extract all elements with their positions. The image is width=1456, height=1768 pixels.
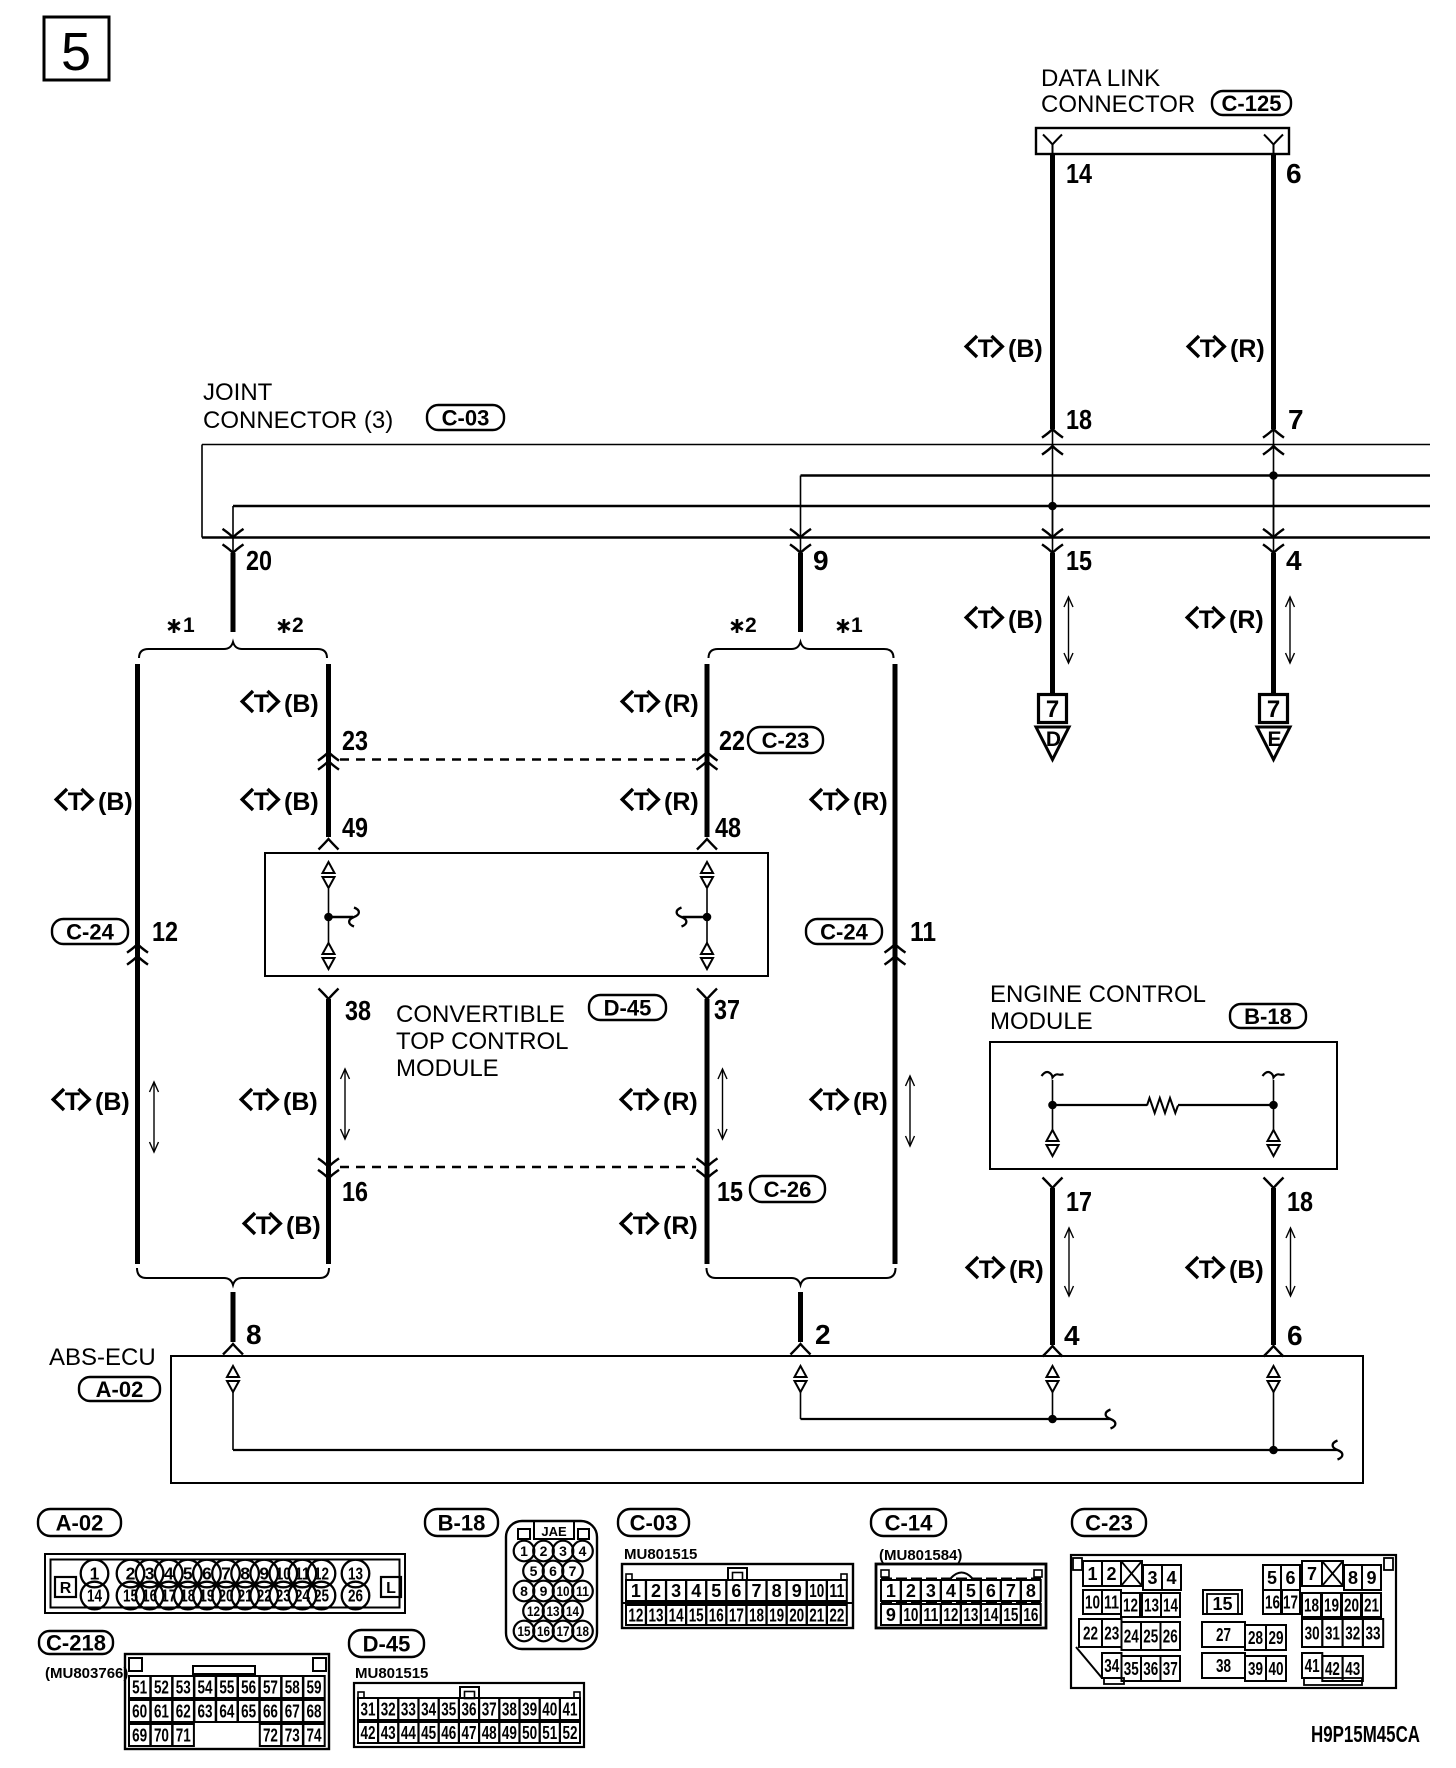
wire label T B <box>244 1212 321 1240</box>
split label *2 left <box>278 614 303 637</box>
svg-text:(R): (R) <box>664 788 699 816</box>
svg-text:34: 34 <box>421 1700 436 1720</box>
connector crossing pin 7 <box>1263 429 1284 455</box>
terminal pin 6 of C-125 <box>1264 135 1283 155</box>
connector crossing pin 4 <box>1263 529 1284 553</box>
connector pinout B-18 JAE <box>506 1521 597 1649</box>
wire pin 6 to joint connector <box>1271 154 1276 429</box>
svg-text:CONVERTIBLE: CONVERTIBLE <box>396 1001 565 1028</box>
module internal wire right <box>683 889 708 943</box>
svg-text:22: 22 <box>1083 1624 1098 1644</box>
svg-text:1: 1 <box>520 1543 528 1559</box>
svg-text:(R): (R) <box>663 1212 698 1240</box>
svg-text:14: 14 <box>1066 158 1092 189</box>
ABS internal break lower <box>1333 1441 1343 1460</box>
terminal flare pin 8 <box>223 1344 243 1355</box>
connector pinout C-218 <box>125 1654 329 1749</box>
wire label T B <box>242 690 319 718</box>
merge brace right <box>707 1268 896 1285</box>
connector crossing C-23 pin 23 <box>318 752 339 770</box>
junction dot pin18 bus <box>1048 502 1057 511</box>
pin number 12 <box>152 916 178 947</box>
svg-text:12: 12 <box>314 1564 329 1584</box>
terminal flare pin 37 <box>697 989 717 1000</box>
svg-text:49: 49 <box>342 812 368 843</box>
wire label T B inner <box>242 788 319 816</box>
svg-text:4: 4 <box>1166 1568 1176 1588</box>
ABS internal wire pin 8 <box>233 1392 1337 1450</box>
pin number 6 <box>1286 158 1302 189</box>
pin number 15 <box>1066 545 1092 576</box>
terminal flare pin 2 <box>791 1344 811 1355</box>
svg-text:36: 36 <box>462 1700 477 1720</box>
svg-text:13: 13 <box>1144 1596 1159 1616</box>
svg-text:35: 35 <box>441 1700 456 1720</box>
svg-text:18: 18 <box>749 1606 764 1626</box>
svg-text:T: T <box>253 1088 268 1116</box>
svg-text:25: 25 <box>314 1586 329 1606</box>
wire pin4 inside box <box>1273 476 1275 538</box>
ABS internal terminal pin 6 <box>1268 1366 1280 1392</box>
svg-text:C-23: C-23 <box>1085 1511 1133 1536</box>
module name <box>396 1001 568 1082</box>
svg-text:A-02: A-02 <box>96 1377 144 1402</box>
svg-text:41: 41 <box>563 1700 578 1720</box>
page number 5 box <box>44 17 109 82</box>
svg-text:51: 51 <box>542 1723 557 1743</box>
wire label T R <box>967 1256 1044 1284</box>
wire pin 8 <box>231 1292 236 1342</box>
svg-text:7: 7 <box>1006 1581 1016 1601</box>
svg-text:29: 29 <box>1269 1628 1284 1648</box>
svg-text:6: 6 <box>1286 158 1302 189</box>
svg-text:17: 17 <box>557 1623 570 1639</box>
svg-text:T: T <box>978 335 993 363</box>
svg-text:6: 6 <box>202 1564 212 1584</box>
svg-text:T: T <box>633 1088 648 1116</box>
svg-text:13: 13 <box>547 1603 560 1619</box>
connector pinout C-14 <box>876 1564 1046 1628</box>
connector crossing C-24 right <box>885 944 906 965</box>
split label *2 right <box>731 614 756 637</box>
svg-text:1: 1 <box>886 1581 896 1601</box>
svg-text:7: 7 <box>221 1564 231 1584</box>
svg-text:9: 9 <box>792 1581 802 1601</box>
bus wire CAN-L inside joint connector <box>233 506 1430 538</box>
svg-text:45: 45 <box>421 1723 436 1743</box>
svg-text:6: 6 <box>1287 1320 1303 1351</box>
connector crossing C-26 pin 15 <box>697 1158 718 1178</box>
svg-text:(B): (B) <box>1229 1256 1264 1284</box>
svg-text:7: 7 <box>751 1581 761 1601</box>
ABS internal wire pin 4 <box>1052 1392 1054 1419</box>
connector crossing pin 18 <box>1042 429 1063 455</box>
svg-text:6: 6 <box>986 1581 996 1601</box>
wire ECM pin 18 to ABS <box>1271 1188 1276 1345</box>
svg-text:8: 8 <box>520 1583 528 1599</box>
svg-text:1: 1 <box>631 1581 641 1601</box>
svg-text:15: 15 <box>1003 1605 1018 1625</box>
svg-text:C-14: C-14 <box>885 1511 933 1536</box>
svg-text:32: 32 <box>381 1700 396 1720</box>
connector label C-23 <box>748 727 823 753</box>
svg-text:23: 23 <box>342 725 368 756</box>
connector pinout D-45 <box>354 1683 584 1747</box>
twisted pair arrow <box>1064 597 1073 663</box>
svg-text:17: 17 <box>1066 1186 1092 1217</box>
svg-text:37: 37 <box>1163 1659 1178 1679</box>
svg-text:17: 17 <box>729 1606 744 1626</box>
module internal terminal pin 48 <box>701 862 713 888</box>
wire pin15 inside box <box>1052 506 1054 538</box>
svg-text:38: 38 <box>502 1700 517 1720</box>
svg-text:46: 46 <box>441 1723 456 1743</box>
svg-text:48: 48 <box>482 1723 497 1743</box>
wire pin 14 to joint connector <box>1050 154 1055 429</box>
svg-text:43: 43 <box>381 1723 396 1743</box>
svg-text:C-26: C-26 <box>764 1177 812 1202</box>
wire label T R <box>621 1212 698 1240</box>
svg-text:2: 2 <box>651 1581 661 1601</box>
part number MU801515 C-03 <box>624 1546 697 1563</box>
svg-text:58: 58 <box>285 1678 300 1698</box>
wire pin15 to connector D <box>1050 553 1055 695</box>
svg-text:37: 37 <box>714 994 740 1025</box>
svg-text:19: 19 <box>769 1606 784 1626</box>
svg-text:69: 69 <box>132 1726 147 1746</box>
svg-text:27: 27 <box>1216 1625 1231 1645</box>
svg-text:12: 12 <box>152 916 178 947</box>
svg-text:31: 31 <box>361 1700 376 1720</box>
svg-text:(B): (B) <box>284 690 319 718</box>
branch brace right <box>709 642 894 658</box>
pin number 2 <box>815 1319 831 1350</box>
svg-text:5: 5 <box>1267 1568 1277 1588</box>
pin number 14 <box>1066 158 1092 189</box>
svg-text:31: 31 <box>1325 1624 1340 1644</box>
connector label C-125 <box>1212 91 1291 116</box>
ECM internal break left <box>1042 1072 1064 1078</box>
connector crossing pin 15 <box>1042 529 1063 553</box>
pin number 23 <box>342 725 368 756</box>
data link connector C-125 box <box>1036 128 1289 154</box>
svg-text:7: 7 <box>1288 404 1304 435</box>
svg-text:3: 3 <box>559 1543 567 1559</box>
svg-text:11: 11 <box>829 1581 844 1601</box>
svg-text:A-02: A-02 <box>56 1511 104 1536</box>
svg-text:ABS-ECU: ABS-ECU <box>49 1344 156 1371</box>
off-page connector 7-E <box>1257 695 1290 760</box>
svg-text:14: 14 <box>983 1605 998 1625</box>
terminal pin 14 of C-125 <box>1043 135 1062 155</box>
twisted pair arrow <box>341 1069 350 1139</box>
svg-text:24: 24 <box>1124 1627 1139 1647</box>
svg-text:18: 18 <box>1304 1596 1319 1616</box>
svg-text:34: 34 <box>1104 1656 1119 1676</box>
svg-text:(R): (R) <box>1009 1256 1044 1284</box>
pin number 8 <box>246 1319 262 1350</box>
svg-text:D-45: D-45 <box>604 996 652 1021</box>
twisted pair arrow <box>906 1076 915 1146</box>
svg-text:MODULE: MODULE <box>396 1055 499 1082</box>
wire pin 2 <box>798 1292 803 1342</box>
svg-text:9: 9 <box>886 1605 896 1625</box>
svg-text:9: 9 <box>540 1583 548 1599</box>
svg-text:32: 32 <box>1345 1624 1360 1644</box>
svg-text:7: 7 <box>1267 696 1280 723</box>
svg-text:16: 16 <box>709 1606 724 1626</box>
module internal terminal pin 49 <box>323 862 335 888</box>
svg-text:7: 7 <box>1046 696 1059 723</box>
svg-text:41: 41 <box>1305 1656 1320 1676</box>
svg-text:C-24: C-24 <box>66 920 114 945</box>
connector label C-24 left <box>52 919 128 945</box>
svg-text:6: 6 <box>549 1563 557 1579</box>
svg-text:9: 9 <box>813 545 829 576</box>
svg-text:17: 17 <box>1283 1593 1298 1613</box>
svg-text:20: 20 <box>1344 1596 1359 1616</box>
wire label T B inner <box>241 1088 318 1116</box>
svg-text:47: 47 <box>462 1723 477 1743</box>
svg-text:44: 44 <box>401 1723 416 1743</box>
connector C-26 dashed link <box>340 1166 696 1169</box>
connector pinout C-23 <box>1071 1555 1396 1688</box>
twisted pair arrow <box>150 1082 159 1152</box>
svg-text:20: 20 <box>789 1606 804 1626</box>
svg-text:49: 49 <box>502 1723 517 1743</box>
terminal flare ECM pin 18 <box>1264 1178 1284 1189</box>
wire label T R outer <box>811 1088 888 1116</box>
svg-text:36: 36 <box>1143 1659 1158 1679</box>
engine control module label <box>990 981 1206 1035</box>
svg-text:H9P15M45CA: H9P15M45CA <box>1311 1721 1420 1747</box>
svg-text:14: 14 <box>1163 1596 1178 1616</box>
svg-text:21: 21 <box>809 1606 824 1626</box>
svg-text:(MU801584): (MU801584) <box>879 1547 962 1564</box>
svg-text:72: 72 <box>263 1726 278 1746</box>
svg-text:21: 21 <box>1364 1596 1379 1616</box>
svg-text:51: 51 <box>132 1678 147 1698</box>
svg-text:35: 35 <box>1124 1659 1139 1679</box>
svg-text:T: T <box>823 788 838 816</box>
wire label T R <box>622 690 699 718</box>
svg-text:55: 55 <box>219 1678 234 1698</box>
svg-text:65: 65 <box>241 1702 256 1722</box>
terminal flare ABS pin 4 <box>1043 1346 1063 1357</box>
terminal flare ABS pin 6 <box>1264 1346 1284 1357</box>
svg-text:6: 6 <box>1285 1568 1295 1588</box>
joint connector label <box>203 379 393 434</box>
svg-text:DATA LINK: DATA LINK <box>1041 65 1160 92</box>
svg-text:68: 68 <box>307 1702 322 1722</box>
svg-text:5: 5 <box>530 1563 538 1579</box>
svg-text:74: 74 <box>307 1726 322 1746</box>
connector pinout C-03 <box>622 1564 853 1628</box>
svg-text:1: 1 <box>1087 1564 1097 1584</box>
ECM internal wire right <box>1273 1080 1275 1130</box>
wire label T B <box>1187 1256 1264 1284</box>
svg-text:20: 20 <box>246 545 272 576</box>
connector label C-14 bottom <box>871 1509 946 1536</box>
wire label T R <box>1187 606 1264 634</box>
svg-text:T: T <box>823 1088 838 1116</box>
svg-text:2: 2 <box>906 1581 916 1601</box>
svg-text:12: 12 <box>943 1605 958 1625</box>
svg-text:3: 3 <box>145 1564 155 1584</box>
ABS internal break upper <box>1106 1410 1116 1429</box>
svg-text:2: 2 <box>815 1319 831 1350</box>
svg-text:22: 22 <box>719 725 745 756</box>
svg-text:(R): (R) <box>1229 606 1264 634</box>
connector label C-26 <box>750 1176 825 1202</box>
pin number 49 <box>342 812 368 843</box>
svg-text:8: 8 <box>772 1581 782 1601</box>
module internal terminal pin 37 <box>701 943 713 969</box>
twisted pair arrow <box>1065 1228 1074 1296</box>
svg-text:33: 33 <box>1366 1624 1381 1644</box>
terminal flare pin 38 <box>319 989 339 1000</box>
svg-text:13: 13 <box>963 1605 978 1625</box>
ECM terminating resistor <box>1053 1098 1274 1113</box>
terminal flare ECM pin 17 <box>1043 1178 1063 1189</box>
svg-text:14: 14 <box>566 1603 579 1619</box>
svg-text:(B): (B) <box>283 1088 318 1116</box>
connector label C-24 right <box>806 919 882 945</box>
svg-text:CONNECTOR: CONNECTOR <box>1041 91 1195 118</box>
svg-text:18: 18 <box>1066 404 1092 435</box>
svg-text:40: 40 <box>1269 1659 1284 1679</box>
svg-text:5: 5 <box>183 1564 193 1584</box>
pin number 6 <box>1287 1320 1303 1351</box>
svg-text:8: 8 <box>240 1564 250 1584</box>
module internal wire left <box>329 889 354 943</box>
engine control module B-18 box <box>990 1042 1337 1169</box>
wire label T R right <box>1188 335 1265 363</box>
svg-text:D: D <box>1046 728 1061 751</box>
wire label T B <box>966 606 1043 634</box>
svg-text:8: 8 <box>246 1319 262 1350</box>
connector label D-45 <box>589 995 666 1021</box>
ABS internal wire pin 2 <box>801 1392 1111 1419</box>
svg-text:42: 42 <box>1325 1659 1340 1679</box>
svg-text:(R): (R) <box>663 1088 698 1116</box>
svg-text:39: 39 <box>1248 1659 1263 1679</box>
pin number 16 <box>342 1176 368 1207</box>
svg-text:4: 4 <box>691 1581 701 1601</box>
svg-text:5: 5 <box>966 1581 976 1601</box>
svg-text:(R): (R) <box>1230 335 1265 363</box>
wire branch *2 right lower <box>705 999 710 1264</box>
svg-text:38: 38 <box>1216 1656 1231 1676</box>
svg-text:5: 5 <box>61 22 91 82</box>
ABS-ECU label <box>49 1344 156 1371</box>
svg-text:26: 26 <box>1163 1627 1178 1647</box>
svg-text:(B): (B) <box>1008 606 1043 634</box>
twisted pair arrow <box>1286 597 1295 663</box>
svg-text:4: 4 <box>1286 545 1302 576</box>
svg-text:L: L <box>386 1580 396 1597</box>
wire ECM pin 17 to ABS <box>1050 1188 1055 1345</box>
svg-text:1: 1 <box>183 614 195 637</box>
svg-text:(B): (B) <box>1008 335 1043 363</box>
split label *1 right <box>837 614 863 637</box>
svg-text:15: 15 <box>689 1606 704 1626</box>
svg-text:8: 8 <box>1348 1568 1358 1588</box>
svg-text:33: 33 <box>401 1700 416 1720</box>
svg-text:(B): (B) <box>286 1212 321 1240</box>
svg-text:23: 23 <box>1104 1624 1119 1644</box>
svg-text:4: 4 <box>579 1543 587 1559</box>
connector C-23 dashed link <box>340 758 696 761</box>
svg-text:59: 59 <box>307 1678 322 1698</box>
twisted pair arrow <box>718 1069 727 1139</box>
svg-text:2: 2 <box>126 1564 136 1584</box>
module internal junction right <box>703 913 712 922</box>
pin number 4 <box>1286 545 1302 576</box>
pin number 18 <box>1066 404 1092 435</box>
module internal junction left <box>324 913 333 922</box>
wire pin 20 down <box>231 553 236 632</box>
connector crossing pin 9 <box>790 529 811 553</box>
svg-text:MU801515: MU801515 <box>355 1665 428 1682</box>
svg-text:C-218: C-218 <box>46 1631 106 1656</box>
module internal break left <box>349 908 359 927</box>
svg-text:7: 7 <box>569 1563 577 1579</box>
svg-text:1: 1 <box>90 1564 100 1584</box>
svg-text:60: 60 <box>132 1702 147 1722</box>
part number MU801584 <box>879 1547 962 1564</box>
svg-text:(B): (B) <box>284 788 319 816</box>
wire label T R inner <box>622 788 699 816</box>
twisted pair arrow <box>1286 1228 1295 1296</box>
pin number 22 <box>719 725 745 756</box>
svg-text:15: 15 <box>717 1176 743 1207</box>
wire branch *1 right <box>893 664 898 1264</box>
ECM internal terminal pin 18 <box>1268 1130 1280 1156</box>
svg-text:MU801515: MU801515 <box>624 1546 697 1563</box>
svg-text:T: T <box>256 1212 271 1240</box>
connector label C-218 <box>39 1631 113 1656</box>
pin number 48 <box>715 812 741 843</box>
svg-text:T: T <box>254 690 269 718</box>
svg-text:73: 73 <box>285 1726 300 1746</box>
svg-text:39: 39 <box>522 1700 537 1720</box>
svg-text:TOP CONTROL: TOP CONTROL <box>396 1028 568 1055</box>
svg-text:MODULE: MODULE <box>990 1008 1093 1035</box>
svg-text:54: 54 <box>198 1678 213 1698</box>
wire label T R inner <box>621 1088 698 1116</box>
svg-text:64: 64 <box>219 1702 234 1722</box>
pin number 38 <box>345 995 371 1026</box>
svg-text:70: 70 <box>154 1726 169 1746</box>
svg-text:10: 10 <box>809 1581 824 1601</box>
svg-text:16: 16 <box>537 1623 550 1639</box>
part number MU803766 <box>45 1665 128 1682</box>
svg-text:12: 12 <box>628 1606 643 1626</box>
svg-text:62: 62 <box>176 1702 191 1722</box>
svg-text:C-03: C-03 <box>630 1511 678 1536</box>
svg-text:C-125: C-125 <box>1222 91 1282 116</box>
svg-text:T: T <box>633 1212 648 1240</box>
svg-text:(B): (B) <box>95 1088 130 1116</box>
svg-text:11: 11 <box>923 1605 938 1625</box>
svg-text:26: 26 <box>348 1586 363 1606</box>
wire label T R outer <box>811 788 888 816</box>
svg-text:61: 61 <box>154 1702 169 1722</box>
svg-text:40: 40 <box>542 1700 557 1720</box>
svg-text:C-24: C-24 <box>820 920 868 945</box>
connector label C-03 bottom <box>618 1509 689 1536</box>
